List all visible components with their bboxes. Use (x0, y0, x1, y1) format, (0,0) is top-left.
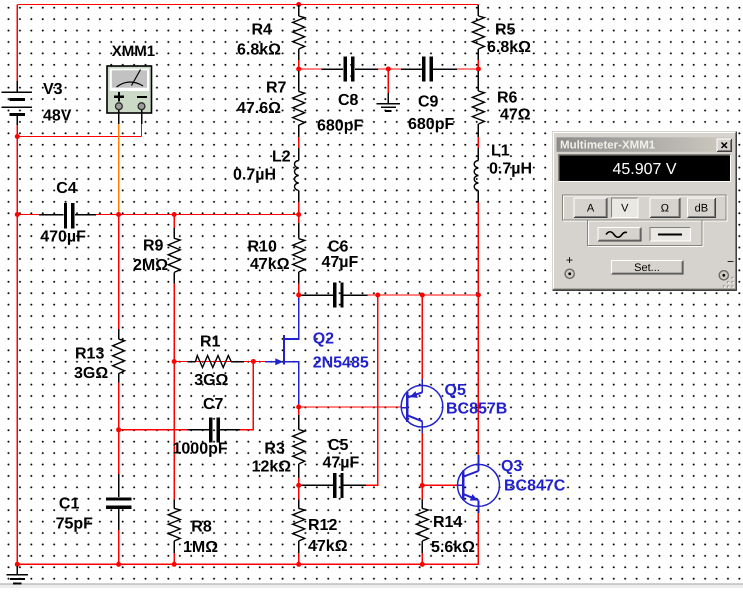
junction L2 / R10 (296, 212, 301, 217)
svg-text:Set...: Set... (634, 262, 660, 274)
junction battery minus (15, 134, 20, 139)
svg-text:47µF: 47µF (323, 455, 360, 472)
svg-text:47µF: 47µF (322, 254, 359, 271)
wire top supply rail (17, 4, 478, 6)
wire R13 bottom to C1 top (118, 383, 120, 475)
svg-text:−: − (727, 255, 734, 269)
transistor Q2 JFET 2N5485 (265, 298, 299, 404)
svg-text:R1: R1 (200, 334, 221, 351)
svg-text:6.8kΩ: 6.8kΩ (237, 42, 281, 59)
wire R9 branch top (173, 215, 175, 229)
wire C8 row left (299, 68, 343, 70)
svg-text:XMM1: XMM1 (112, 43, 155, 60)
junction R1 right / Q2 gate / C7 (251, 359, 256, 364)
wire battery to multimeter minus row (17, 136, 141, 138)
resistor R5 (472, 5, 484, 60)
wire R13 branch upper (118, 215, 120, 330)
wire Q5 emitter drop from C6 node (421, 295, 423, 380)
svg-text:Multimeter-XMM1: Multimeter-XMM1 (560, 139, 656, 151)
wire ground bus bottom (17, 563, 478, 565)
junction Q5 emitter (420, 293, 425, 298)
svg-text:C1: C1 (59, 496, 80, 513)
capacitor C4 (39, 203, 96, 229)
resistor R8 (168, 500, 180, 554)
svg-text:1MΩ: 1MΩ (183, 539, 218, 556)
multimeter button V (pressed) (611, 198, 638, 217)
inductor L1 (474, 148, 478, 202)
svg-text:L1: L1 (491, 143, 510, 160)
wire Q5 collector to R14 node (421, 433, 423, 500)
wire multimeter minus drop (141, 124, 143, 137)
transistor Q3 BC847C (NPN) (458, 455, 500, 513)
svg-text:C5: C5 (328, 437, 349, 454)
wire C6 row right (368, 294, 479, 296)
svg-text:75pF: 75pF (56, 516, 94, 533)
svg-text:48V: 48V (43, 108, 72, 125)
wire L2 bottom to R10 top (298, 202, 300, 223)
svg-text:BC857B: BC857B (446, 401, 507, 418)
multimeter DC button (pressed) (650, 228, 690, 241)
svg-text:47kΩ: 47kΩ (308, 538, 348, 555)
resistor R9 (168, 228, 180, 284)
junction top rail / R4 (296, 2, 301, 7)
resistor R10 (293, 223, 305, 284)
multimeter instrument icon XMM1 (107, 66, 152, 124)
junction R10 / C6 / Q2 drain (296, 293, 301, 298)
svg-text:1000pF: 1000pF (173, 441, 228, 458)
svg-text:0.7µH: 0.7µH (233, 167, 276, 184)
bottom window edge strip (0, 585, 743, 589)
capacitor C9 (401, 57, 457, 82)
svg-text:12kΩ: 12kΩ (252, 459, 292, 476)
svg-text:R12: R12 (308, 517, 337, 534)
capacitor C6 (301, 283, 368, 308)
resistor R14 (416, 500, 428, 554)
svg-text:C6: C6 (328, 239, 349, 256)
wire left rail (16, 125, 18, 564)
junction R9 top (172, 212, 177, 217)
svg-text:R13: R13 (75, 345, 104, 362)
svg-text:C8: C8 (338, 92, 359, 109)
wire C6/C5 right branch vertical (366, 295, 378, 485)
svg-text:6.8kΩ: 6.8kΩ (487, 39, 531, 56)
junction Q2 source / R3 (296, 405, 301, 410)
wire ground stub at C8/C9 (387, 69, 389, 93)
svg-text:R6: R6 (497, 90, 518, 107)
junction L1-Q3 rail / C6 net (476, 293, 481, 298)
svg-text:C4: C4 (56, 180, 77, 197)
svg-text:0.7µH: 0.7µH (489, 161, 532, 178)
wire C5 right lead red part (345, 484, 366, 486)
wire R12 bottom to bus (298, 553, 300, 564)
svg-text:2N5485: 2N5485 (313, 355, 369, 372)
wire R8 bottom to bus (173, 553, 175, 564)
wire C4 row left (17, 214, 63, 216)
wire R1 node down to C7 right (240, 362, 253, 430)
wire R6 to L1 gap (477, 137, 479, 148)
junction R3 / C5 / R12 (296, 483, 301, 488)
junction left rail / C4 (15, 212, 20, 217)
wire R5 to R6 gap (477, 60, 479, 71)
multimeter close button (717, 139, 732, 152)
multimeter title bar (557, 137, 734, 152)
multimeter window Multimeter-XMM1 (553, 132, 737, 291)
junction R8 bottom (172, 562, 177, 567)
junction Q5 collector / Q3 base / R14 (420, 483, 425, 488)
svg-text:2MΩ: 2MΩ (133, 257, 168, 274)
capacitor C5 (301, 473, 366, 498)
resistor R1 (187, 356, 244, 368)
multimeter button Ω (650, 198, 680, 217)
svg-text:R3: R3 (264, 441, 285, 458)
junction C1 bottom (116, 562, 121, 567)
svg-text:C7: C7 (203, 396, 224, 413)
junction R13-C1 / C7 left (116, 427, 121, 432)
svg-text:V3: V3 (43, 81, 63, 98)
junction R12 bottom (296, 562, 301, 567)
junction C4 / XMM1 plus / R13 (116, 212, 121, 217)
multimeter button A (574, 198, 607, 217)
multimeter button dB (687, 198, 715, 217)
svg-text:Q5: Q5 (445, 382, 466, 399)
junction R14 bottom (420, 562, 425, 567)
multimeter display (559, 155, 731, 182)
capacitor C7 (187, 417, 240, 442)
svg-text:L2: L2 (272, 149, 291, 166)
wire right rail L1 to Q3 collector (477, 202, 479, 455)
ground at C8/C9 (376, 93, 400, 111)
wire battery top drop (16, 5, 18, 82)
svg-text:3GΩ: 3GΩ (74, 365, 108, 382)
svg-text:Ω: Ω (661, 203, 669, 215)
junction bus ground tap (15, 562, 20, 567)
svg-text:5.6kΩ: 5.6kΩ (431, 539, 475, 556)
wire R10 bottom to C6 node (298, 284, 300, 299)
junction C6 right (375, 293, 380, 298)
wire Q2 source row to Q5 base (298, 404, 300, 415)
multimeter Set button (611, 260, 683, 273)
svg-text:R7: R7 (266, 79, 287, 96)
svg-text:470µF: 470µF (40, 229, 86, 246)
svg-text:680pF: 680pF (317, 117, 363, 134)
wire C1 bottom to bus (118, 530, 120, 564)
svg-text:R8: R8 (191, 518, 212, 535)
svg-text:47.6Ω: 47.6Ω (237, 100, 281, 117)
svg-text:R9: R9 (143, 238, 164, 255)
wire R9 bottom to R1 node to R8 top (173, 284, 175, 500)
svg-text:dB: dB (695, 203, 708, 215)
ground at bottom left (6, 566, 28, 584)
svg-text:R4: R4 (252, 22, 273, 39)
resistor R7 (293, 71, 305, 137)
wire C8-C9 ground link (356, 68, 422, 70)
svg-text:3GΩ: 3GΩ (194, 372, 228, 389)
junction R5-R6 / C9 (476, 67, 481, 72)
wire R4 to R7 gap (298, 60, 300, 71)
wire R7 to L2 gap (298, 137, 300, 148)
wire R1 row (174, 361, 265, 363)
resistor R6 (472, 71, 484, 137)
resistor R3 (293, 415, 305, 478)
svg-text:47Ω: 47Ω (500, 107, 531, 124)
transistor Q5 BC857B (PNP) (401, 379, 443, 433)
svg-text:C9: C9 (418, 94, 439, 111)
inductor L2 (295, 148, 299, 202)
capacitor C8 (322, 57, 378, 82)
wire multimeter plus drop (orange) (118, 124, 120, 215)
wire C5 row left (299, 484, 333, 486)
svg-text:V: V (621, 203, 629, 215)
junction R4-R7 / C8 (296, 67, 301, 72)
junction R9-R8 / R1 left (172, 359, 177, 364)
svg-text:R14: R14 (433, 514, 462, 531)
multimeter signal group frame (589, 221, 704, 246)
wire Q3 base row (422, 484, 457, 486)
svg-text:R5: R5 (495, 22, 516, 39)
multimeter resize grip (723, 277, 734, 288)
svg-text:A: A (587, 203, 595, 215)
junction C8-C9 ground tap (386, 67, 391, 72)
svg-text:Q3: Q3 (501, 458, 522, 475)
multimeter AC button (598, 228, 641, 241)
svg-text:BC847C: BC847C (504, 478, 566, 495)
resistor R12 (293, 500, 305, 554)
svg-text:47kΩ: 47kΩ (250, 256, 290, 273)
wire C7 row left (119, 429, 188, 431)
svg-text:45.907 V: 45.907 V (612, 161, 676, 178)
svg-text:R10: R10 (248, 239, 277, 256)
wire C9 row right (434, 68, 478, 70)
resistor R13 (113, 329, 125, 383)
capacitor C1 (106, 474, 131, 530)
svg-text:+: + (566, 253, 573, 267)
svg-text:Q2: Q2 (313, 331, 334, 348)
svg-text:680pF: 680pF (408, 116, 454, 133)
wire R14 bottom to bus (421, 553, 423, 564)
wire R3 bottom to C5 node to R12 top (298, 478, 300, 505)
wire C4 row right (76, 214, 299, 216)
wire Q3 emitter to bus (477, 513, 479, 564)
battery V3 (1, 81, 32, 125)
resistor R4 (293, 5, 305, 60)
multimeter mode group frame (563, 196, 727, 221)
